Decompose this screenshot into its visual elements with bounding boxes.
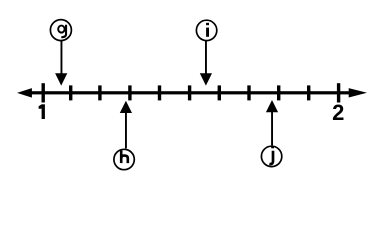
tick 1.9 — [307, 85, 310, 100]
svg-text:2: 2 — [332, 100, 344, 125]
left arrowhead of number line — [17, 88, 32, 98]
pointer i : letter — [206, 23, 209, 25]
tick 1.2 — [98, 85, 101, 100]
pointer j : arrow shaft — [271, 111, 273, 145]
pointer g : circle — [50, 20, 71, 41]
pointer j : circle — [261, 146, 281, 166]
tick 1.4 — [158, 85, 161, 100]
major tick at 1 — [42, 83, 45, 102]
pointer g : arrowhead (down) — [55, 73, 67, 85]
pointer j : letter — [271, 146, 274, 149]
pointer h : arrowhead (up) — [120, 101, 132, 113]
tick 1.1 — [69, 85, 72, 100]
pointer h : circle — [114, 149, 134, 169]
right arrowhead of number line — [349, 88, 367, 97]
tick 1.5 — [188, 85, 191, 100]
pointer j : arrowhead (up) — [266, 100, 278, 112]
tick 1.3 — [128, 85, 131, 100]
pointer h : arrow shaft — [125, 112, 127, 148]
label 1 — [42, 104, 45, 119]
pointer i : arrow shaft — [205, 41, 207, 74]
pointer g : letter (single-story g drawn as path) — [58, 26, 64, 33]
major tick at 2 — [337, 83, 340, 102]
pointer i : arrowhead (down) — [200, 73, 212, 85]
pointer h : letter — [120, 150, 123, 163]
pointer g : arrow shaft — [61, 41, 63, 75]
tick 1.7 — [247, 85, 250, 100]
pointer i : circle — [196, 20, 216, 40]
number line (horizontal axis) — [28, 91, 352, 94]
tick 1.8 — [277, 85, 280, 100]
tick 1.6 — [218, 85, 221, 100]
